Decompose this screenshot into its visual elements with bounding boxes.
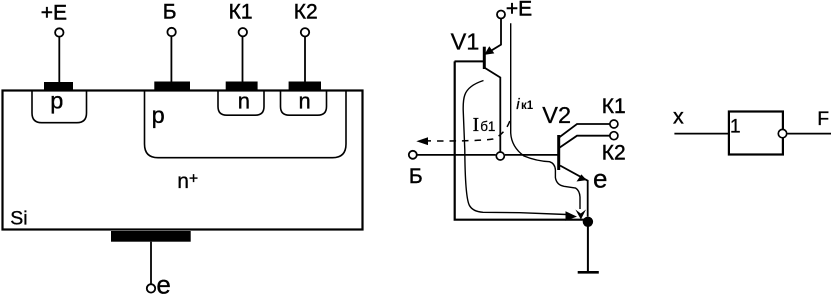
wire V1 base to ground node (left and bottom of loop) bbox=[455, 61, 585, 219]
svg-text:1: 1 bbox=[730, 116, 741, 137]
gate input wire bbox=[674, 133, 728, 135]
svg-text:F: F bbox=[817, 108, 829, 130]
svg-text:К1: К1 bbox=[602, 95, 626, 118]
svg-text:p: p bbox=[50, 87, 63, 113]
svg-text:К2: К2 bbox=[294, 1, 318, 24]
Si substrate box bbox=[3, 91, 363, 230]
dashed base current line bbox=[428, 121, 510, 141]
+E terminal wire (left) bbox=[58, 37, 60, 82]
svg-text:V2: V2 bbox=[542, 102, 571, 128]
K2 terminal wire (left) bbox=[304, 37, 306, 82]
n-well 2 (collector 2) bbox=[281, 91, 327, 115]
K1 terminal circle (schematic) bbox=[610, 120, 618, 128]
transistor V2 base bar bbox=[557, 135, 560, 170]
V1 emitter arrow bbox=[484, 46, 494, 55]
gate output wire bbox=[787, 133, 831, 135]
B terminal circle (left) bbox=[167, 28, 175, 36]
ground symbol bbox=[578, 271, 599, 274]
svg-text:Si: Si bbox=[10, 208, 27, 230]
B terminal circle (schematic) bbox=[409, 151, 417, 159]
dashed line arrowhead bbox=[416, 137, 428, 145]
transistor V1 base bar bbox=[483, 47, 486, 69]
svg-text:К1: К1 bbox=[229, 1, 253, 24]
base contact bar (B) bbox=[154, 82, 190, 91]
inversion circle bbox=[778, 129, 786, 137]
K1 terminal wire (left) bbox=[242, 37, 244, 82]
node to V2 base wire bbox=[505, 154, 558, 156]
+E terminal circle (left) bbox=[55, 28, 63, 36]
wire +E to V1 emitter bbox=[487, 19, 501, 53]
B wire to node bbox=[417, 154, 496, 156]
current flow line i_k1 bbox=[511, 23, 580, 209]
p-well 1 (emitter p region) bbox=[32, 91, 87, 123]
svg-text:n: n bbox=[238, 89, 250, 114]
current flow loop I_b1 bbox=[463, 81, 566, 215]
svg-text:Б: Б bbox=[409, 165, 423, 188]
svg-text:Б: Б bbox=[163, 1, 177, 24]
svg-text:n: n bbox=[299, 89, 311, 114]
n-well 1 (collector 1) bbox=[218, 91, 264, 115]
collector contact bar K2 bbox=[289, 82, 321, 91]
V2 emitter wire bbox=[560, 166, 588, 217]
svg-text:+Е: +Е bbox=[506, 0, 532, 21]
ground wire bbox=[587, 222, 589, 272]
i_k1 down arrowhead bbox=[575, 210, 586, 220]
svg-text:е: е bbox=[593, 164, 607, 194]
bottom emitter contact bar bbox=[111, 231, 191, 242]
svg-text:x: x bbox=[673, 105, 684, 129]
svg-text:I: I bbox=[473, 115, 480, 136]
svg-text:К2: К2 bbox=[602, 141, 626, 164]
V1 collector wire down to base node bbox=[485, 68, 500, 152]
svg-text:к1: к1 bbox=[521, 100, 534, 112]
svg-text:p: p bbox=[152, 102, 165, 128]
B terminal wire (left) bbox=[170, 37, 172, 82]
K2 terminal circle (schematic) bbox=[610, 132, 618, 140]
K1 terminal circle (left) bbox=[239, 28, 247, 36]
svg-text:+Е: +Е bbox=[41, 1, 67, 24]
svg-text:б1: б1 bbox=[480, 119, 495, 134]
e terminal circle (left bottom) bbox=[147, 284, 155, 292]
emitter contact bar (+E) bbox=[44, 82, 73, 91]
V2 emitter arrow bbox=[577, 174, 587, 181]
K2 terminal circle (left) bbox=[301, 28, 309, 36]
svg-text:V1: V1 bbox=[451, 28, 480, 54]
e terminal wire (left bottom) bbox=[150, 242, 152, 284]
base node circle bbox=[496, 152, 504, 160]
svg-text:е: е bbox=[156, 270, 170, 294]
ground node dot bbox=[583, 217, 593, 227]
gate box U1 bbox=[729, 112, 783, 155]
V2 collector 2 wire bbox=[559, 136, 610, 148]
V2 collector 1 wire bbox=[559, 124, 610, 138]
p-well 2 (base p region) bbox=[145, 91, 347, 158]
I_b1 arrowhead bbox=[566, 211, 578, 221]
V1 base wire bbox=[455, 60, 484, 62]
+E terminal circle (schematic) bbox=[497, 11, 505, 19]
collector contact bar K1 bbox=[226, 82, 258, 91]
